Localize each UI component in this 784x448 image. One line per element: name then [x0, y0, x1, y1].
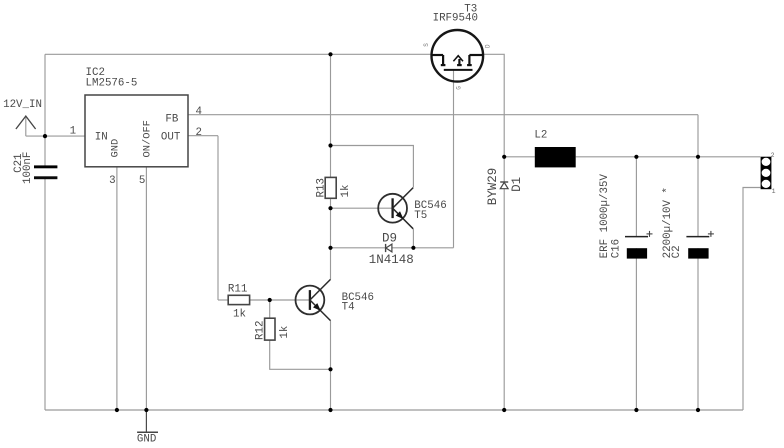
diode D1 BYW29 symbol	[500, 182, 508, 189]
resistor R13 body	[325, 177, 336, 198]
svg-text:G: G	[456, 86, 463, 90]
junction T4 collector / D9 line	[328, 246, 332, 250]
IC2 pin label GND (rotated)	[110, 139, 122, 158]
junction 12V_IN node	[43, 134, 47, 138]
svg-text:3: 3	[109, 175, 115, 187]
wire left vertical 12V column (above C21)	[44, 54, 46, 165]
svg-text:1: 1	[772, 188, 776, 195]
IC2 label	[86, 67, 105, 79]
wire FB feedback line	[188, 114, 698, 116]
svg-text:2: 2	[196, 127, 202, 139]
svg-text:5: 5	[139, 175, 145, 187]
T3 pin label G	[456, 86, 463, 90]
junction switch node D1/L2	[502, 155, 506, 159]
IC2 pin number 1	[70, 126, 76, 138]
node 12V_IN input arrow	[16, 116, 36, 129]
resistor R12 body	[265, 318, 275, 340]
svg-text:D1: D1	[510, 177, 524, 192]
svg-text:1k: 1k	[340, 185, 352, 198]
junction C16 top	[634, 155, 638, 159]
wire T4 emitter vertical to ground rail	[330, 321, 332, 410]
wire C16 bottom lead	[635, 248, 637, 410]
capacitor C16 symbol	[625, 231, 653, 259]
wire 12V_IN arrow stem	[25, 117, 27, 137]
diode D1 label (rotated)	[510, 177, 524, 192]
resistor R13 label (rotated)	[315, 178, 327, 197]
svg-text:100nF: 100nF	[22, 152, 34, 184]
wire switch node to L2	[504, 156, 535, 158]
capacitor C2 symbol	[686, 231, 714, 259]
resistor R13 value 1k (rotated)	[340, 185, 352, 198]
connector X1 output header	[761, 157, 772, 190]
wire OUT vertical down to R11	[217, 136, 219, 300]
svg-text:FB: FB	[165, 113, 178, 125]
wire 12V input top rail	[45, 53, 432, 55]
junction ground rail C2	[696, 408, 700, 412]
wire IN pin lead	[26, 135, 85, 137]
svg-text:T5: T5	[414, 210, 427, 222]
IC2 pin number 3	[109, 175, 115, 187]
capacitor C2 label (rotated)	[671, 245, 683, 258]
wire main vertical 12V to T4 collector (x=330.5)	[330, 54, 332, 279]
wire R11 right lead to T4 base	[250, 299, 310, 301]
wire connector pin2 return	[743, 188, 760, 411]
junction R11 / R12 / T4 base	[268, 298, 272, 302]
svg-text:4: 4	[196, 106, 202, 118]
transistor T4 BC546	[296, 279, 331, 320]
wire R12 top lead	[269, 300, 271, 318]
svg-text:C2: C2	[671, 245, 683, 258]
IC2 pin label ON/OFF (rotated)	[142, 120, 154, 157]
ground label GND	[137, 433, 156, 445]
capacitor C21 label (rotated)	[13, 153, 25, 172]
junction ground rail D1	[502, 408, 506, 412]
svg-text:IRF9540: IRF9540	[433, 13, 478, 25]
junction ground rail T4 emitter	[328, 408, 332, 412]
junction top rail / R13 column	[328, 52, 332, 56]
resistor R12 value 1k (rotated)	[279, 326, 291, 339]
junction T5 emitter / gate line	[411, 246, 415, 250]
capacitor C21 plates	[34, 165, 57, 179]
capacitor C16 value ERF 1000u/35V (rotated)	[599, 174, 611, 259]
svg-text:R12: R12	[254, 321, 266, 340]
wire C2 bottom lead	[697, 248, 699, 410]
IC2 pin label OUT	[161, 132, 181, 144]
transistor T4 name	[342, 301, 355, 313]
wire ground bottom rail	[45, 409, 743, 411]
inductor L2 label	[534, 129, 547, 141]
IC2 pin label IN	[95, 132, 108, 144]
T3 pin label S	[423, 43, 430, 47]
svg-text:BYW29: BYW29	[486, 168, 500, 206]
wire L2 to output / connector	[576, 156, 761, 158]
capacitor C16 label (rotated)	[611, 239, 623, 258]
capacitor C21 value 100nF (rotated)	[22, 152, 34, 184]
transistor T4 label BC546	[342, 292, 374, 304]
transistor T3 name	[464, 4, 477, 16]
resistor R12 label (rotated)	[254, 321, 266, 340]
wire GND symbol stub	[145, 410, 147, 432]
junction C2 / FB / connector	[696, 155, 700, 159]
wire T3 gate vertical	[453, 70, 455, 248]
svg-text:R11: R11	[228, 284, 247, 296]
junction R13 bottom / T5 base	[328, 206, 332, 210]
svg-text:D9: D9	[382, 232, 397, 246]
IC2 pin label FB	[165, 113, 178, 125]
svg-text:IN: IN	[95, 132, 108, 144]
svg-text:T4: T4	[342, 301, 355, 313]
resistor R11 label	[228, 284, 247, 296]
svg-text:GND: GND	[137, 433, 156, 445]
diode D9 label	[382, 232, 397, 246]
T3 pin label D	[484, 44, 491, 48]
wire T5 emitter vertical	[412, 229, 414, 248]
transistor T3 IRF9540 P-MOSFET	[432, 30, 484, 82]
wire D1 cathode/anode vertical to ground	[503, 157, 505, 410]
junction R12 / T4 emitter	[328, 367, 332, 371]
junction ground rail pin5/GND	[144, 408, 148, 412]
svg-text:1: 1	[70, 126, 76, 138]
resistor R11 body	[228, 295, 249, 304]
wire R11 left lead	[218, 299, 228, 301]
diode D9 value 1N4148	[369, 253, 414, 267]
capacitor C2 value 2200u/10V * (rotated)	[662, 187, 674, 258]
svg-text:S: S	[423, 43, 430, 47]
transistor T5 BC546	[378, 188, 413, 229]
junction R13 top / T5 collector	[328, 143, 332, 147]
svg-text:ERF 1000µ/35V: ERF 1000µ/35V	[599, 174, 611, 259]
junction ground rail C16	[634, 408, 638, 412]
wire T5 base lead	[331, 207, 393, 209]
wire C2 top lead	[697, 157, 699, 237]
wire R12 bottom lead	[270, 340, 331, 369]
svg-text:OUT: OUT	[161, 132, 181, 144]
IC IC2 LM2576-5 regulator box	[85, 95, 188, 167]
diode D9 1N4148 symbol	[386, 244, 392, 252]
IC2 pin number 2	[196, 127, 202, 139]
wire FB vertical drop to output node	[697, 115, 699, 157]
svg-text:GND: GND	[110, 139, 122, 158]
transistor T5 label BC546	[414, 200, 446, 212]
svg-text:12V_IN: 12V_IN	[3, 99, 42, 111]
svg-text:R13: R13	[315, 178, 327, 197]
connector pin number 2	[771, 152, 775, 159]
svg-text:ON/OFF: ON/OFF	[142, 120, 154, 157]
svg-text:C16: C16	[611, 239, 623, 258]
wire T3 drain lead	[483, 54, 504, 157]
wire T5 collector top link	[331, 146, 414, 188]
svg-text:L2: L2	[534, 129, 547, 141]
resistor R11 value 1k	[233, 308, 246, 320]
svg-text:1k: 1k	[233, 308, 246, 320]
wire D9 gate-drive line	[331, 247, 454, 249]
wire left vertical below C21 to ground rail	[44, 179, 46, 410]
svg-text:1N4148: 1N4148	[369, 253, 414, 267]
wire C16 top lead	[635, 157, 637, 237]
node 12V_IN label	[3, 99, 42, 111]
transistor T5 name	[414, 210, 427, 222]
ground symbol	[137, 431, 158, 433]
svg-text:1k: 1k	[279, 326, 291, 339]
transistor T3 value IRF9540	[433, 13, 478, 25]
junction ground rail pin3	[115, 408, 119, 412]
svg-text:D: D	[484, 44, 491, 48]
svg-text:2: 2	[771, 152, 775, 159]
diode D1 value BYW29 (rotated)	[486, 168, 500, 206]
wire OUT pin lead	[188, 135, 218, 137]
svg-text:LM2576-5: LM2576-5	[86, 78, 138, 90]
inductor L2 body	[535, 147, 576, 167]
connector pin number 1	[772, 188, 776, 195]
wire IC2 pin5 ON/OFF down	[145, 167, 147, 410]
IC2 pin number 5	[139, 175, 145, 187]
IC2 pin number 4	[196, 106, 202, 118]
IC2 value LM2576-5	[86, 78, 138, 90]
wire IC2 pin3 GND down	[116, 167, 118, 410]
